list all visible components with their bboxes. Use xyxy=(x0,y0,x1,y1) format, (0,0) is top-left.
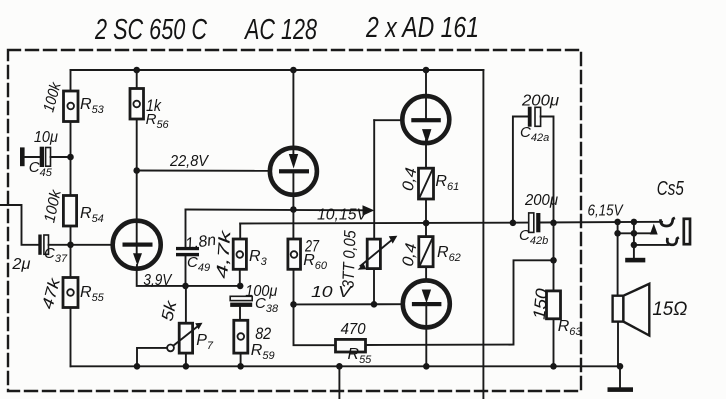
driver to output stage vertical xyxy=(373,120,375,239)
wire jack column a xyxy=(617,222,619,296)
resistor R59 xyxy=(234,320,248,366)
capacitor C38 xyxy=(230,296,252,320)
transistor T2 AC128 xyxy=(270,67,317,196)
wire 10.15V xyxy=(186,209,369,212)
resistor R3 xyxy=(233,224,246,286)
wire input left xyxy=(0,205,38,245)
node jack row1 b xyxy=(631,219,638,226)
resistor R55 xyxy=(63,278,78,308)
top supply rail xyxy=(71,69,484,71)
wire T4 base xyxy=(294,303,404,305)
node C42a left xyxy=(510,220,517,227)
wire R55 to rail xyxy=(70,308,72,367)
wire T2 base xyxy=(137,170,270,172)
dashed enclosure border xyxy=(8,50,581,391)
wire output node down to R63 xyxy=(553,223,555,291)
wire R56 to T1 collector node xyxy=(136,119,138,171)
node jack row3 xyxy=(631,242,638,249)
wire R62 to T4 xyxy=(425,267,427,281)
capacitor C42a xyxy=(513,107,554,223)
svg-text:6,15V: 6,15V xyxy=(588,203,624,220)
capacitor C49 xyxy=(176,210,199,286)
arrow node 10.15V xyxy=(363,205,375,216)
node jack row1 a xyxy=(614,219,621,226)
resistor R55b 470 xyxy=(336,339,366,352)
jack socket row1 contact xyxy=(661,218,674,226)
node bottom rail tap xyxy=(336,363,343,370)
ground bottom right xyxy=(608,366,634,392)
resistor R56 xyxy=(130,67,144,119)
resistor R53 xyxy=(64,91,79,122)
svg-text:3TT 0,05: 3TT 0,05 xyxy=(340,229,360,288)
node R63 ground xyxy=(550,363,557,370)
resistor R61 xyxy=(419,168,434,199)
svg-text:3,9V: 3,9V xyxy=(143,272,172,289)
wire base T1 xyxy=(71,244,114,246)
ground jack xyxy=(625,258,645,263)
svg-text:2μ: 2μ xyxy=(11,256,30,273)
supply drop line xyxy=(482,70,484,399)
wire jack column b xyxy=(633,222,635,258)
resistor R62 xyxy=(419,237,433,267)
wire T1 emitter xyxy=(137,269,241,286)
jack plug xyxy=(684,219,690,244)
node jack row2 a xyxy=(614,230,621,237)
svg-text:470: 470 xyxy=(341,321,366,338)
node T4 collector xyxy=(423,220,430,227)
node C37 base xyxy=(67,242,74,249)
svg-text:15Ω: 15Ω xyxy=(652,299,687,320)
bottom ground rail xyxy=(71,365,621,367)
wire R54 to node xyxy=(70,226,72,278)
node R3 bottom xyxy=(237,283,244,290)
svg-text:AC 128: AC 128 xyxy=(244,14,317,46)
node C45 xyxy=(67,154,74,161)
variable resistor 3TT 0.05 xyxy=(358,236,398,305)
wire bottom exit xyxy=(338,366,340,399)
wire R61 to node xyxy=(425,199,427,237)
transistor T3 AD161 upper xyxy=(374,67,449,169)
capacitor C45 xyxy=(20,147,71,167)
svg-text:2 SC 650 C: 2 SC 650 C xyxy=(94,14,208,46)
svg-text:150: 150 xyxy=(530,287,552,320)
node speaker ground xyxy=(617,363,624,370)
wire T1 collector xyxy=(136,171,138,222)
wire left column xyxy=(70,70,72,91)
wire T4 emitter xyxy=(425,328,427,367)
wire 470 to output node xyxy=(366,260,554,345)
feedback path 470 xyxy=(294,304,336,345)
svg-text:200μ: 200μ xyxy=(524,192,558,209)
loudspeaker Cs xyxy=(613,284,650,367)
node emitter T1 / C49 xyxy=(182,283,189,290)
node jack row2 b xyxy=(631,230,638,237)
wire T2 emitter to R60 xyxy=(292,196,294,239)
capacitor C42b xyxy=(529,213,541,233)
capacitor C37 xyxy=(38,235,70,255)
resistor R63 xyxy=(547,291,561,366)
node pot bottom xyxy=(371,301,378,308)
resistor R54 xyxy=(63,196,76,227)
node C42a right xyxy=(550,220,557,227)
svg-text:4,7k: 4,7k xyxy=(214,229,234,280)
svg-text:Cs5: Cs5 xyxy=(657,178,685,200)
node output to R63 xyxy=(550,257,557,264)
node R60 bottom xyxy=(290,301,297,308)
svg-text:2 x AD 161: 2 x AD 161 xyxy=(365,12,479,44)
wire R53 to R54 xyxy=(70,122,72,196)
node T4 emitter ground xyxy=(423,363,430,370)
wire jack row2 xyxy=(618,232,634,234)
node P7 bottom xyxy=(183,363,190,370)
jack socket row3 contact xyxy=(667,238,677,245)
svg-text:10,15V: 10,15V xyxy=(317,207,368,224)
node P7 wiper ground xyxy=(134,363,141,370)
transistor T4 AD161 lower xyxy=(403,280,450,327)
jack switch arrow xyxy=(634,224,658,235)
node R59 ground xyxy=(237,363,244,370)
long output wire 6.15V line xyxy=(240,222,528,225)
wire jack row3 xyxy=(634,244,668,246)
node 22.8V xyxy=(133,167,140,174)
resistor R60 xyxy=(288,239,301,304)
potentiometer P7 xyxy=(137,286,203,366)
svg-text:22,8V: 22,8V xyxy=(169,153,209,170)
node T2 emitter xyxy=(290,206,297,213)
svg-text:82: 82 xyxy=(255,324,271,343)
svg-text:10μ: 10μ xyxy=(34,129,58,146)
transistor T1 2SC650 xyxy=(113,221,161,269)
svg-text:200μ: 200μ xyxy=(521,93,559,110)
